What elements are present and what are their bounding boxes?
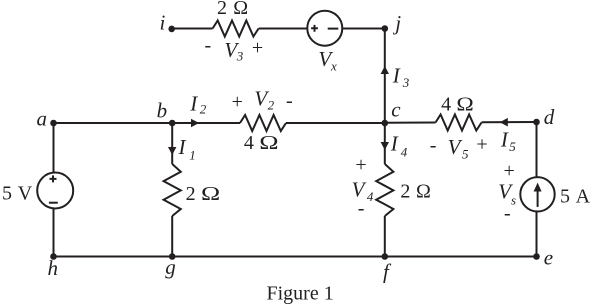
svg-text:x: x [330, 59, 337, 74]
node j [382, 25, 389, 32]
node g [169, 253, 176, 260]
wire mid rail: a to b [54, 122, 173, 124]
svg-text:Ω: Ω [416, 181, 431, 203]
node e [533, 253, 540, 260]
resistor 4ohm (c-d branch) [436, 115, 482, 131]
source 5A circle [520, 177, 554, 211]
svg-text:V: V [448, 135, 463, 159]
svg-text:+: + [232, 91, 243, 113]
svg-text:I: I [500, 127, 509, 151]
wire: 5V source down to h [53, 208, 55, 256]
svg-text:+: + [355, 154, 366, 176]
wire bottom rail: h to e [54, 256, 537, 258]
svg-text:4: 4 [401, 144, 408, 159]
svg-text:Ω: Ω [201, 182, 220, 205]
arrowhead of 5A current source [534, 183, 542, 192]
wire: b down to R1 [171, 123, 173, 164]
sign - inside 5V source [49, 202, 58, 204]
node h [50, 253, 57, 260]
svg-text:V: V [18, 183, 33, 205]
resistor 2ohm top (i-j branch) [213, 21, 259, 37]
node a [50, 120, 57, 127]
svg-text:5: 5 [2, 183, 12, 205]
sign - inside Vx source [328, 28, 339, 30]
arrowhead I3 (up, j-c branch) [381, 66, 389, 74]
wire: c to R5 [385, 122, 436, 124]
node b [169, 120, 176, 127]
node d [533, 119, 540, 126]
svg-text:3: 3 [236, 49, 244, 64]
svg-text:4: 4 [441, 93, 451, 115]
svg-text:+: + [252, 37, 263, 59]
svg-text:Ω: Ω [259, 132, 278, 154]
wire: R3 right to Vx source [259, 28, 308, 30]
source Vx circle [307, 11, 342, 46]
svg-text:2: 2 [217, 0, 227, 19]
svg-text:I: I [178, 135, 187, 159]
svg-text:4: 4 [367, 189, 374, 204]
arrowhead I5 (left, near d) [500, 118, 508, 127]
sign + inside 5V source [50, 175, 57, 182]
svg-text:Ω: Ω [456, 93, 473, 115]
node i [168, 26, 175, 33]
wire: R5 to node d [482, 121, 537, 123]
wire top rail: i to R3 left [172, 28, 213, 30]
node f [382, 253, 389, 260]
sign + inside Vx source [311, 25, 318, 32]
wire: R1 down to g [171, 216, 173, 257]
svg-text:2: 2 [400, 181, 410, 203]
wire: Vx to node j [342, 28, 385, 30]
svg-text:b: b [157, 98, 168, 122]
svg-text:A: A [576, 186, 590, 208]
svg-text:Ω: Ω [233, 0, 248, 19]
resistor 2ohm (b-g branch) [164, 164, 181, 216]
svg-text:I: I [390, 132, 399, 156]
svg-text:-: - [430, 135, 437, 157]
svg-text:5: 5 [560, 186, 570, 208]
arrowhead I1 (down, b branch) [168, 147, 176, 155]
svg-text:3: 3 [402, 75, 410, 90]
svg-text:f: f [383, 260, 392, 284]
svg-text:+: + [476, 134, 487, 156]
svg-text:d: d [544, 105, 555, 129]
arrowhead I2 (right, at b) [191, 119, 199, 128]
svg-text:I: I [189, 92, 198, 116]
svg-text:a: a [37, 107, 48, 131]
resistor 2ohm (c-f branch) [376, 164, 393, 216]
svg-text:-: - [205, 35, 212, 57]
resistor 4ohm (b-c branch) [240, 115, 286, 131]
svg-text:-: - [504, 203, 511, 225]
svg-text:5: 5 [462, 147, 469, 162]
wire: 5A source down to e [536, 212, 538, 257]
svg-text:Figure 1: Figure 1 [267, 283, 334, 305]
wire: j down to c [384, 29, 386, 124]
svg-text:4: 4 [244, 132, 254, 154]
svg-text:2: 2 [268, 98, 275, 113]
svg-text:2: 2 [200, 102, 207, 117]
wire: c down to R4 [384, 123, 386, 164]
svg-text:j: j [392, 11, 401, 35]
node c [382, 120, 389, 127]
wire mid rail: b to R2 [172, 122, 240, 124]
arrow shaft of 5A current source [537, 191, 539, 207]
source 5V circle [37, 173, 73, 209]
svg-text:g: g [165, 255, 176, 279]
svg-text:-: - [286, 90, 293, 112]
svg-text:1: 1 [189, 148, 196, 163]
svg-text:5: 5 [509, 139, 516, 154]
wire: R2 to node c [286, 122, 385, 124]
svg-text:i: i [160, 11, 166, 35]
svg-text:I: I [392, 64, 401, 88]
svg-text:-: - [358, 198, 365, 220]
svg-text:2: 2 [186, 183, 196, 205]
svg-text:e: e [544, 246, 553, 270]
wire: R4 down to f [384, 216, 386, 257]
svg-text:h: h [48, 256, 59, 280]
wire: d down to 5A source [536, 122, 538, 177]
wire left column: a down to 5V source [53, 123, 55, 173]
arrowhead I4 (down, c branch) [381, 142, 389, 150]
svg-text:c: c [391, 97, 401, 121]
svg-text:s: s [511, 193, 516, 208]
